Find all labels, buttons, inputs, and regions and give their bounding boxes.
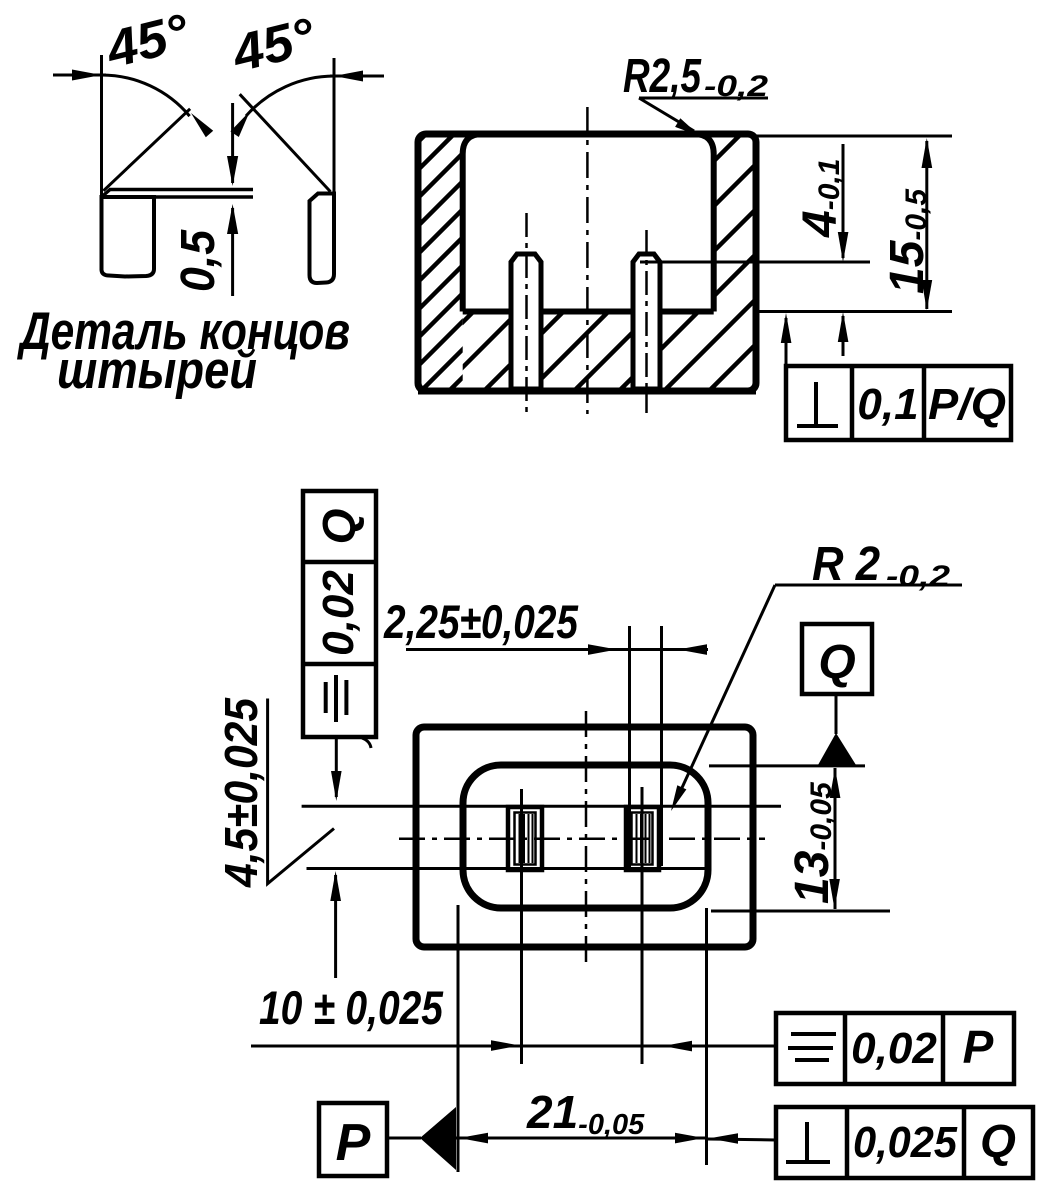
detail A left 45-degree arc [102, 75, 190, 116]
plan pin 1 outer [508, 807, 542, 870]
detail A right arc end arrowhead [230, 111, 250, 137]
frame leader arrow to floor extension [785, 318, 788, 366]
detail A chamfer band upper line [109, 188, 253, 192]
svg-text:10 ± 0,025: 10 ± 0,025 [259, 981, 444, 1034]
detail A chamfer band lower line [102, 195, 254, 199]
plan pin 2 right edge extension line [660, 626, 663, 866]
detail A left pin axis line [100, 55, 103, 197]
svg-text:Q: Q [313, 508, 365, 544]
dimension 10 left-pointing arrowhead [663, 1041, 692, 1052]
svg-text:0,025: 0,025 [853, 1118, 957, 1167]
section cavity floor line [463, 309, 714, 315]
tolerance frame perpendicular 0,025 Q leader [708, 1139, 776, 1140]
vertical frame parallel symbol [326, 675, 347, 722]
dimension 21 left arrowhead [459, 1133, 488, 1144]
plan pin 2 center extension line [641, 787, 644, 1064]
plan recess right edge extension line [705, 908, 708, 1165]
radius R2 leader diagonal and arrowhead [675, 585, 775, 803]
plan recess rounded rectangle [463, 765, 708, 908]
datum Q box [802, 624, 872, 694]
plan outer body rectangle [416, 727, 753, 947]
dimension 2,25 left-pointing arrowhead [678, 644, 707, 655]
svg-text:Q: Q [980, 1115, 1016, 1167]
svg-text:4,5±0,025: 4,5±0,025 [215, 697, 267, 888]
svg-text:0,02: 0,02 [851, 1024, 937, 1073]
detail A right pin body [310, 194, 335, 284]
plan recess bottom edge extension line [711, 910, 890, 913]
section bottom edge restroke [418, 388, 756, 395]
dimension 4,5 leader polyline [268, 699, 334, 884]
plan pin 1 center extension line [520, 789, 523, 1064]
plan horizontal centerline [399, 837, 765, 840]
detail A right horizontal arrowhead [334, 71, 363, 82]
section pin 2 centerline [645, 230, 648, 413]
detail A left chamfer construction diagonal [103, 109, 190, 191]
radius leader underline [639, 97, 768, 100]
radius leader diagonal and arrowhead [639, 98, 694, 131]
plan recess left edge extension line [457, 905, 460, 1172]
dimension 15-0,5 bottom arrowhead [922, 280, 933, 310]
plan pin bottom edges extension line [307, 867, 706, 870]
dimension 2,25 line [406, 648, 708, 651]
tolerance frame parallel 0,02 P [776, 1013, 1014, 1084]
plan pin top edges extension line [302, 805, 781, 808]
dimension 0,5 upper arm with down arrowhead [231, 103, 234, 183]
section cavity outline [463, 134, 714, 312]
detail A right pin axis line [333, 58, 336, 199]
section pin 2 [633, 254, 660, 389]
dimension 15-0,5 line [925, 141, 928, 309]
svg-text:R 2: R 2 [812, 538, 880, 591]
dimension 10 line [251, 1045, 776, 1048]
perpendicular symbol in frame [805, 1122, 809, 1160]
datum Q filled triangle [818, 733, 856, 765]
dimension 4-0,1 lower arm and arrowhead [842, 316, 845, 356]
detail A right chamfer construction diagonal [240, 94, 331, 191]
detail A chamfer corner diagonal [102, 190, 111, 198]
dimension 21 right arrowhead [675, 1133, 704, 1144]
perpendicularity symbol in frame [814, 382, 818, 424]
plan pin 2 left edge extension line [628, 626, 631, 868]
detail A left horizontal arrowhead [72, 70, 102, 81]
svg-text:P: P [336, 1114, 371, 1172]
section pin top extension line [640, 261, 870, 264]
svg-text:-0,2: -0,2 [886, 560, 950, 593]
dimension 4-0,1 upper arm and arrowhead [842, 144, 845, 258]
svg-text:2,25±0,025: 2,25±0,025 [383, 595, 579, 648]
vertical tolerance frame parallel 0,02 Q [303, 491, 376, 737]
tolerance frame perpendicularity 0,1 P/Q [786, 366, 1011, 440]
svg-text:0,5: 0,5 [172, 229, 225, 292]
section pin 1 centerline [525, 213, 528, 413]
section main centerline [586, 107, 589, 414]
plan pin 2 outer [626, 807, 659, 870]
svg-text:R2,5: R2,5 [623, 50, 702, 103]
section top edge extension line [756, 135, 952, 138]
section body outer outline [418, 134, 756, 391]
detail A right 45-degree arc [246, 76, 334, 116]
datum P filled triangle [420, 1107, 456, 1170]
svg-text:Q: Q [818, 636, 855, 689]
parallel symbol in frame [788, 1034, 836, 1060]
radius R2 leader underline [775, 584, 962, 587]
dimension 10 right-pointing arrowhead [491, 1040, 520, 1051]
vertical frame corner tick [362, 738, 371, 748]
svg-text:0,02: 0,02 [314, 570, 363, 656]
dimension 21 line [456, 1137, 707, 1140]
datum P box [319, 1103, 387, 1176]
svg-text:P: P [963, 1021, 994, 1073]
plan recess top edge extension line [709, 764, 865, 767]
svg-text:штырей: штырей [57, 341, 257, 400]
dimension 0,5 lower arm with up arrowhead [231, 208, 234, 296]
plan vertical centerline [585, 711, 588, 964]
dimension 13-0,05 line [834, 768, 837, 909]
dimension 2,25 right-pointing arrowhead [588, 644, 617, 655]
plan pin 1 inner with knurl lines [515, 813, 536, 865]
detail A left arc end arrowhead [191, 113, 213, 137]
tolerance frame perpendicular 0,025 Q [776, 1107, 1033, 1178]
datum Q leader [835, 694, 838, 734]
section pin 1 [511, 254, 541, 389]
dimension 15-0,5 top arrowhead [922, 138, 933, 168]
detail A left pin body [102, 197, 155, 277]
section floor extension line [756, 310, 952, 313]
svg-text:0,1: 0,1 [857, 380, 918, 429]
dimension 13-0,05 bottom arrowhead [829, 879, 840, 909]
detail A right horizontal dimension arm [330, 75, 384, 78]
datum P leader [387, 1137, 421, 1140]
dimension 13-0,05 top arrowhead [830, 768, 841, 798]
dimension 4,5 lower arm and arrowhead [334, 875, 337, 978]
plan pin 2 inner with knurl lines [632, 813, 653, 865]
detail A left horizontal dimension arm [53, 74, 106, 77]
svg-text:P/Q: P/Q [928, 380, 1006, 429]
dimension 4,5 upper arm and arrowhead [335, 737, 338, 797]
